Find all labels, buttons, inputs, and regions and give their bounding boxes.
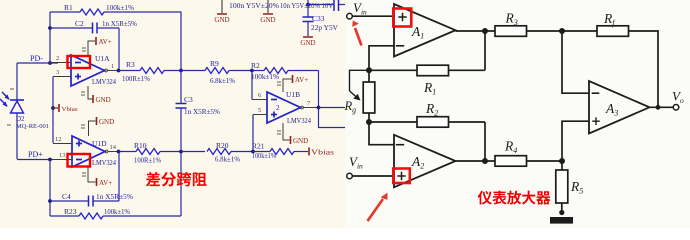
op-amp A2 [394,135,456,188]
wire R5 bottom lead [561,203,563,215]
Rg pointer arrow [350,70,370,91]
wire Rf to output node [629,31,659,107]
svg-text:LMV324: LMV324 [287,116,311,125]
svg-text:100k±1%: 100k±1% [251,73,279,81]
capacitor C33 [303,17,314,22]
U1B pin 4 mark [277,81,281,83]
wire feedback right vertical to output node [180,12,182,71]
U1A pin 2 line [50,62,71,64]
svg-text:GND: GND [260,16,275,24]
terminal Vin (bottom) [347,173,353,179]
terminal Vo [673,105,679,111]
wire Rg bottom lead [368,113,370,122]
power port GND (U1B) [291,136,309,145]
photodiode D2 [0,92,24,113]
op-amp U1B LMV324 [267,92,301,123]
svg-text:Vbias: Vbias [62,106,78,113]
power port AV+ (U1B) [293,75,309,84]
wire R21 to Vbias [294,151,308,153]
left schematic sheet background [0,0,345,228]
node U1B output junction [317,106,321,110]
wire A1 output [456,30,496,32]
svg-text:C2: C2 [75,19,84,28]
wire U1B feedback vertical [318,71,320,108]
resistor R5 [556,170,568,203]
capacitor C3 [176,104,187,109]
svg-text:MQ-RE-001: MQ-RE-001 [16,123,49,130]
wire PD+ horizontal to U1D pin 13 [17,159,50,161]
node R20/R21/pin5 junction [251,150,255,154]
svg-text:C33: C33 [312,14,325,23]
wire U1B output to right edge (upper) [319,107,346,109]
wire decoupling cap C32 stub [267,0,269,13]
wire C33 to GND [307,22,309,37]
node A (R1/R3/R9/C3 junction) [179,69,183,73]
node U1A output junction [117,69,121,73]
annotation text 差分跨阻 [146,172,207,187]
ground [550,217,573,224]
wire A3 non-inverting input [562,121,589,161]
svg-text:D2: D2 [16,115,25,123]
capacitor C2 [93,23,98,34]
U1A pin 3 line [53,76,71,78]
svg-text:6.8k±1%: 6.8k±1% [210,77,235,85]
svg-text:100k±1%: 100k±1% [106,3,134,12]
svg-text:U1A: U1A [95,54,110,63]
node A2 output junction [482,158,488,164]
wire top-right rail [308,4,334,6]
wire R2 to feedback corner [288,70,319,72]
U1D pin 12 line [53,143,72,145]
resistor R1 [80,9,104,15]
svg-text:R21: R21 [252,142,265,151]
op-amp U1A LMV324 [71,55,105,86]
wire R4 to R5 node [527,160,563,162]
wire node to R2 [369,121,417,123]
wire C2 row right segment [97,27,119,29]
resistor R1 [417,65,449,76]
node Rf/output junction [656,105,661,110]
svg-text:GND: GND [293,137,308,145]
U1D pin 4 mark [81,124,85,126]
A2 plus input marker [397,172,405,180]
wire C3 upper segment [180,71,182,104]
svg-text:100R±1%: 100R±1% [134,157,161,165]
wire C4 vertical to U1D output [118,152,120,202]
wire R23 row left segment [50,215,79,217]
terminal Vin (top) [347,13,353,19]
annotation red arrow to A2 plus input [368,199,384,221]
wire R5 top lead [561,161,563,170]
node PD- feedback junction [48,61,52,65]
resistor R3 [140,68,164,74]
U1A pin 11 wire to GND [88,86,93,99]
wire pin6 vertical to R9/R2 node [251,71,253,100]
wire U1B output to right edge (lower) [319,108,346,128]
svg-text:R23: R23 [64,207,77,216]
wire C2 vertical to U1A output [118,28,120,71]
node PD+ feedback junction [48,158,52,162]
wire R3 to A3 input node [527,30,598,32]
U1A output pin 1 line [105,69,108,72]
wire node A to R9 [181,70,205,72]
A3 minus input marker [592,92,600,94]
svg-text:R3: R3 [126,60,135,69]
wire bias vertical U1A pin3 to U1D pin12 [52,77,54,144]
annotation red box A1 plus input [393,9,411,27]
wire PD- vertical from photodiode cathode [16,63,18,101]
wire R9 to U1B input node [229,70,252,72]
U1B pin 4 wire to AV+ [283,79,292,92]
svg-text:1n X5R±5%: 1n X5R±5% [102,20,137,28]
wire A3 output [650,106,674,108]
wire C4 row left segment [50,200,89,202]
wire R1 to A1 output vertical [449,69,486,71]
wire pin5 vertical to R20/R21 node [252,115,254,152]
photodiode pin 2 mark [7,124,11,126]
op-amp A1 [394,4,456,57]
resistor R2 [417,117,449,128]
wire C2 row left segment [50,27,93,29]
resistor R10 [136,149,160,155]
node R4/R5 junction [559,158,565,164]
svg-text:10n Y5V±20% 10V: 10n Y5V±20% 10V [280,2,333,10]
wire decoupling cap C31 stub [221,0,223,13]
wire A1 minus input [369,46,394,70]
svg-text:12: 12 [55,136,62,143]
svg-text:LMV324: LMV324 [92,77,116,86]
wire Vin to A1 plus input [352,15,394,17]
svg-text:R10: R10 [134,141,147,150]
wire R23 vertical to node B [180,152,182,217]
power port Vbias (U1B) [309,148,334,157]
svg-text:AV+: AV+ [99,38,112,46]
svg-text:PD-: PD- [30,54,43,63]
wire A3 inverting input [562,31,589,93]
A1 minus input marker [396,45,404,47]
U1B pin 6 line [252,99,267,101]
resistor R21 [270,149,294,155]
wire R20 to R21 node [231,151,253,153]
U1A pin 4 wire to AV+ [88,41,95,55]
svg-text:2: 2 [276,104,280,112]
op-amp U1D LMV324 [72,136,105,167]
resistor Rf [597,26,629,37]
resistor R23 [79,213,103,219]
capacitor C34 (cropped at edge) [334,0,339,11]
svg-text:R2: R2 [251,61,260,70]
U1D pin 13 line [50,159,72,161]
wire Vin to A2 plus input [352,175,394,177]
annotation red box U1D inverting input [68,154,91,167]
U1A pin 11 mark [81,91,85,93]
photodiode light arrow 1 [2,92,9,99]
wire PD+ vertical from photodiode anode [16,113,18,160]
svg-text:1: 1 [111,63,114,70]
resistor R3 [495,26,527,37]
svg-text:GND: GND [214,16,229,24]
svg-text:100n Y5V±20%: 100n Y5V±20% [229,2,279,10]
power port GND (U1D) [97,117,115,126]
power port GND (C33) [300,37,315,47]
svg-text:1n X5R±5%: 1n X5R±5% [96,193,133,201]
svg-text:3: 3 [56,69,59,76]
wire R3 to node A [164,70,181,72]
wire C33 top stub [307,0,309,17]
resistor R9 [205,68,229,74]
node Rg bottom junction [366,119,372,125]
node U1D output junction [117,150,121,154]
U1B pin 11 wire to GND [283,123,290,140]
svg-text:100R±1%: 100R±1% [122,75,150,83]
svg-text:6.8k±1%: 6.8k±1% [215,156,240,164]
svg-text:C4: C4 [62,192,71,201]
U1D pin 11 mark [82,172,86,174]
power port AV+ (U1A) [96,37,112,46]
svg-text:100k±1%: 100k±1% [104,207,130,216]
wire R1 row left segment [50,11,80,13]
resistor R4 [495,156,527,167]
svg-text:GND: GND [300,39,315,47]
photodiode pin 1 mark [10,88,14,90]
power port Vbias (input stage) [53,107,58,109]
A1 plus input marker [398,13,406,21]
node B (R10/R20/C3/R23 junction) [179,150,183,154]
wire feedback left vertical [49,12,51,64]
wire node to R1 [369,69,417,71]
U1B pin 11 mark [277,130,281,132]
resistor R2 [264,68,288,74]
wire A2 minus input [369,122,394,145]
wire A2 output [456,160,496,162]
svg-text:R20: R20 [216,141,229,150]
op-amp A3 [589,81,650,134]
svg-text:100k±1%: 100k±1% [252,152,276,160]
svg-text:PD+: PD+ [28,150,43,159]
wire PD- horizontal to U1A pin 2 [17,62,58,64]
node R3/Rf junction [559,28,565,34]
wire U1A output to R3 [119,70,141,72]
node A1 output junction [482,28,488,34]
svg-text:U1B: U1B [286,90,300,99]
power port GND (U1A) [93,95,111,104]
svg-text:AV+: AV+ [295,76,308,84]
wire U1D output to R10 [119,151,137,153]
svg-text:22p Y5V: 22p Y5V [311,24,338,32]
wire C3 lower segment [180,108,182,152]
svg-text:LMV324: LMV324 [92,158,116,167]
svg-text:Vbias: Vbias [311,149,334,157]
svg-text:GND: GND [96,96,111,104]
wire Rg top lead [368,70,370,82]
annotation red arrow to Vin top [355,28,362,46]
wire R1 row right segment [104,11,182,13]
annotation red box A2 plus input [393,169,410,184]
node U1B inverting input junction [250,69,254,73]
svg-text:U1D: U1D [92,139,107,148]
svg-text:13: 13 [59,152,66,159]
U1D pin 4 wire to GND above [89,121,96,136]
photodiode light arrow 2 [0,99,7,106]
right diagram background [345,0,690,228]
annotation text 仪表放大器 [478,191,551,205]
A3 plus input marker [592,117,600,125]
U1B output pin 7 line [301,106,304,109]
wire node B to R20 [181,151,205,153]
svg-text:5: 5 [258,107,261,114]
wire R2 to A2 output vertical [449,121,486,123]
power port AV+ (U1D) [97,178,113,187]
node Vbias junction [51,106,55,110]
svg-text:R9: R9 [210,59,219,68]
svg-text:GND: GND [99,118,114,126]
power port GND (C31) [214,14,229,24]
node A1 feedback junction [366,67,372,73]
svg-text:14: 14 [110,144,117,151]
wire feedback left vertical (U1D) [49,160,51,217]
capacitor C4 [89,196,94,207]
annotation red box U1A inverting input [68,56,91,68]
svg-text:1n X5R±5%: 1n X5R±5% [184,108,220,116]
wire R10 to node B [160,151,181,153]
wire C4 row right segment [93,200,119,202]
node C33 junction [306,3,310,7]
U1A pin 4 mark [82,47,86,49]
wire R23 row right segment [103,215,181,217]
resistor R20 [207,149,231,155]
power port GND (C32) [260,14,275,24]
svg-text:AV+: AV+ [99,179,112,187]
A2 minus input marker [396,144,404,146]
svg-text:R1: R1 [64,3,73,12]
svg-text:2: 2 [56,55,59,62]
U1D output pin 14 line [105,150,108,153]
svg-text:C3: C3 [184,95,193,104]
node C4 tap junction [48,199,52,203]
U1B pin 5 line [253,114,267,116]
resistor Rg [363,82,375,113]
node C2 tap junction [48,26,52,30]
U1D pin 11 wire to AV+ below [88,167,96,182]
